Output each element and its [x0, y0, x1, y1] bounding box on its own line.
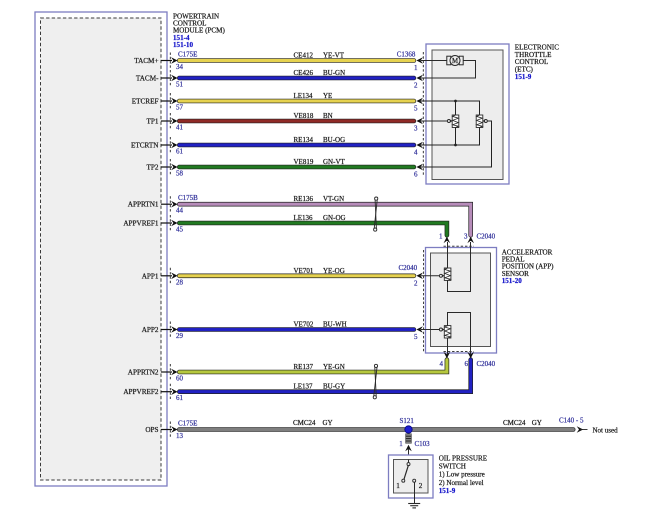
wire LE134 YE — [179, 92, 414, 101]
svg-text:51: 51 — [176, 81, 184, 89]
svg-text:TACM+: TACM+ — [134, 57, 158, 65]
svg-text:151-20: 151-20 — [502, 277, 523, 285]
module ETC title — [515, 43, 559, 81]
wire RE137 YE-GN — [179, 360, 447, 372]
svg-text:APPVREF2: APPVREF2 — [123, 388, 159, 396]
splice pigtail to C103 — [406, 434, 412, 443]
svg-text:VE818: VE818 — [294, 112, 314, 120]
connector C2040 dashed faces — [424, 246, 474, 351]
svg-text:41: 41 — [176, 124, 184, 132]
connector C103 pin 1 — [399, 440, 430, 460]
svg-text:LE136: LE136 — [294, 214, 314, 222]
wire TPS2 wiper to pin6 — [421, 120, 492, 168]
pin TACM- 51 of PCM — [136, 70, 184, 89]
svg-text:YE-GN: YE-GN — [323, 363, 345, 371]
pin 5 of APP — [414, 326, 423, 341]
pin 1 of ETC — [414, 57, 423, 72]
wire pin4 to pot bottoms — [421, 128, 480, 147]
wire APP pot2 top to pin6 — [448, 313, 471, 355]
svg-text:C175B: C175B — [178, 194, 198, 202]
svg-text:151-9: 151-9 — [515, 73, 532, 81]
pin ETCREF 57 of PCM — [132, 93, 184, 112]
svg-text:3: 3 — [464, 233, 468, 241]
oil pressure switch title — [439, 454, 487, 495]
wire CE426 BU-GN — [179, 69, 414, 78]
svg-text:4: 4 — [440, 360, 444, 368]
svg-text:BU-OG: BU-OG — [323, 136, 345, 144]
pin APPVREF2 61 of PCM — [123, 384, 183, 403]
svg-text:APPRTN2: APPRTN2 — [128, 369, 159, 377]
wire motor to pin2 — [421, 61, 476, 79]
pin 2 of APP — [414, 273, 423, 288]
svg-text:61: 61 — [176, 394, 184, 402]
svg-text:57: 57 — [176, 104, 184, 112]
pin ETCRTN 61 of PCM — [131, 137, 184, 156]
wire LE136 GN-OG — [179, 214, 447, 235]
wire VE818 BN — [179, 112, 414, 121]
wire RE134 BU-OG — [179, 136, 414, 145]
svg-text:CMC24: CMC24 — [503, 419, 526, 427]
wire switch contact 2 to ground — [414, 482, 416, 503]
pin TACM+ 34 of PCM — [134, 53, 183, 72]
svg-text:1: 1 — [439, 233, 443, 241]
svg-text:YE-OG: YE-OG — [323, 267, 345, 275]
svg-text:VE702: VE702 — [294, 321, 314, 329]
svg-text:C1368: C1368 — [397, 51, 416, 59]
svg-text:LE134: LE134 — [294, 92, 314, 100]
svg-text:TACM-: TACM- — [136, 75, 159, 83]
svg-text:TP2: TP2 — [147, 164, 159, 172]
splice S121 — [400, 417, 415, 433]
connector C1368 dashed face at ETC — [422, 52, 424, 175]
twisted pair symbol (RE137/LE137) — [373, 364, 377, 399]
module PCM box — [35, 12, 167, 486]
svg-text:61: 61 — [176, 148, 184, 156]
svg-text:28: 28 — [176, 278, 184, 286]
svg-text:6: 6 — [465, 360, 469, 368]
svg-text:C2040: C2040 — [477, 360, 496, 368]
svg-text:1: 1 — [396, 482, 400, 490]
wire VE701 YE-OG — [179, 267, 414, 276]
svg-text:C2040: C2040 — [399, 264, 418, 272]
svg-text:GY: GY — [323, 419, 333, 427]
svg-text:C175E: C175E — [178, 51, 197, 59]
wire LE137 BU-GY — [179, 360, 470, 392]
svg-text:GN-VT: GN-VT — [323, 158, 345, 166]
potentiometer TPS1 of ETC — [452, 115, 459, 128]
oil pressure switch box — [389, 455, 434, 498]
pin TP1 41 of PCM — [147, 113, 184, 132]
svg-text:45: 45 — [176, 226, 184, 234]
svg-text:C2040: C2040 — [477, 233, 496, 241]
wire APP pot1 bottom to pin3 — [448, 242, 471, 292]
wire pin1 to motor — [421, 60, 447, 62]
svg-text:151-10: 151-10 — [173, 41, 194, 49]
pin APP1 28 of PCM — [142, 268, 184, 287]
svg-text:4: 4 — [414, 149, 418, 157]
motor M1 of ETC — [447, 56, 463, 66]
svg-text:6: 6 — [414, 171, 418, 179]
svg-text:2: 2 — [414, 82, 418, 90]
svg-text:2: 2 — [419, 482, 423, 490]
svg-text:APP1: APP1 — [142, 272, 159, 280]
wire VE819 GN-VT — [179, 158, 414, 167]
svg-text:BU-GN: BU-GN — [323, 69, 345, 77]
svg-text:VT-GN: VT-GN — [323, 195, 344, 203]
svg-text:1: 1 — [414, 64, 418, 72]
svg-text:1: 1 — [399, 440, 403, 448]
svg-text:BN: BN — [323, 112, 333, 120]
svg-text:RE134: RE134 — [294, 136, 314, 144]
svg-text:3: 3 — [414, 125, 418, 133]
pin 4 of APP — [440, 352, 451, 368]
pin OPS 13 of PCM — [145, 422, 183, 441]
svg-text:BU-WH: BU-WH — [323, 321, 347, 329]
module ETC box — [426, 44, 509, 184]
svg-text:ETCRTN: ETCRTN — [131, 142, 159, 150]
module APP title — [502, 249, 554, 285]
wire pin1 to APP pot1 — [447, 242, 449, 268]
svg-text:44: 44 — [176, 207, 184, 215]
svg-text:VE701: VE701 — [294, 267, 314, 275]
svg-text:CE412: CE412 — [294, 52, 314, 60]
twisted pair symbol (RE136/LE136) — [374, 197, 378, 231]
wire CMC24 GY (left of splice) — [179, 419, 573, 430]
svg-text:C175E: C175E — [178, 419, 197, 427]
pin 4 of ETC — [414, 142, 423, 157]
svg-text:M: M — [452, 58, 458, 65]
svg-text:29: 29 — [176, 332, 184, 340]
svg-text:CMC24: CMC24 — [293, 419, 316, 427]
pin 3 of ETC — [414, 118, 423, 133]
wire VE702 BU-WH — [179, 321, 414, 330]
svg-text:SWITCH: SWITCH — [439, 463, 466, 471]
svg-text:13: 13 — [176, 432, 184, 440]
svg-text:151-9: 151-9 — [439, 487, 456, 495]
pin APPVREF1 45 of PCM — [123, 215, 183, 234]
potentiometer APP1 sensor element — [444, 268, 451, 280]
svg-text:Not used: Not used — [593, 426, 619, 434]
svg-text:YE-VT: YE-VT — [323, 52, 345, 60]
svg-text:2: 2 — [414, 279, 418, 287]
wire pin5 to throttle pots — [421, 100, 480, 115]
switch S1 (oil pressure switch) internals — [396, 460, 423, 491]
svg-text:APPRTN1: APPRTN1 — [128, 201, 159, 209]
svg-text:OIL PRESSURE: OIL PRESSURE — [439, 454, 487, 462]
svg-text:TP1: TP1 — [147, 118, 159, 126]
svg-text:CE426: CE426 — [294, 69, 314, 77]
svg-text:58: 58 — [176, 170, 184, 178]
wire pin2 to APP pot1 wiper — [421, 274, 445, 277]
svg-text:BU-GY: BU-GY — [323, 383, 345, 391]
pin 1 of APP — [439, 233, 450, 244]
pin 5 of ETC — [414, 98, 423, 113]
wire pin5 to APP pot2 wiper — [421, 328, 445, 331]
svg-text:S121: S121 — [400, 417, 415, 425]
potentiometer APP2 sensor element — [444, 326, 451, 338]
svg-text:APPVREF1: APPVREF1 — [123, 220, 159, 228]
connector C140 pin 5 (not used) — [559, 417, 618, 435]
wire pin3 to TPS1 wiper — [421, 120, 453, 123]
svg-text:APP2: APP2 — [142, 326, 159, 334]
svg-text:ETCREF: ETCREF — [132, 98, 159, 106]
wire RE136 VT-GN — [179, 195, 470, 235]
svg-text:LE137: LE137 — [294, 383, 314, 391]
module APP sensor box — [426, 248, 497, 354]
ground G103 — [408, 504, 420, 508]
pin TP2 58 of PCM — [147, 159, 184, 178]
module PCM title — [173, 13, 225, 49]
svg-text:GY: GY — [532, 419, 542, 427]
pin 6 of ETC — [414, 164, 423, 179]
svg-text:C140 - 5: C140 - 5 — [559, 417, 584, 425]
svg-text:RE136: RE136 — [294, 195, 314, 203]
pin 6 of APP — [465, 352, 475, 368]
pin APP2 29 of PCM — [142, 322, 184, 341]
wire CE412 YE-VT — [179, 52, 414, 61]
potentiometer TPS2 of ETC — [476, 115, 483, 128]
svg-text:2) Normal level: 2) Normal level — [439, 479, 484, 487]
wire APP pot2 bottom to pin4 — [447, 338, 449, 354]
svg-text:RE137: RE137 — [294, 363, 314, 371]
svg-text:OPS: OPS — [145, 426, 158, 434]
svg-text:GN-OG: GN-OG — [323, 214, 346, 222]
pin 2 of ETC — [414, 75, 423, 90]
svg-text:C103: C103 — [415, 440, 431, 448]
svg-text:VE819: VE819 — [294, 158, 314, 166]
pin 3 of APP — [464, 233, 474, 244]
svg-text:5: 5 — [414, 333, 418, 341]
svg-text:1) Low pressure: 1) Low pressure — [439, 471, 485, 479]
svg-text:5: 5 — [414, 105, 418, 113]
svg-text:YE: YE — [323, 92, 332, 100]
svg-text:60: 60 — [176, 375, 184, 383]
pin APPRTN2 60 of PCM — [128, 364, 184, 383]
pin APPRTN1 44 of PCM — [128, 196, 184, 215]
svg-text:34: 34 — [176, 63, 184, 71]
